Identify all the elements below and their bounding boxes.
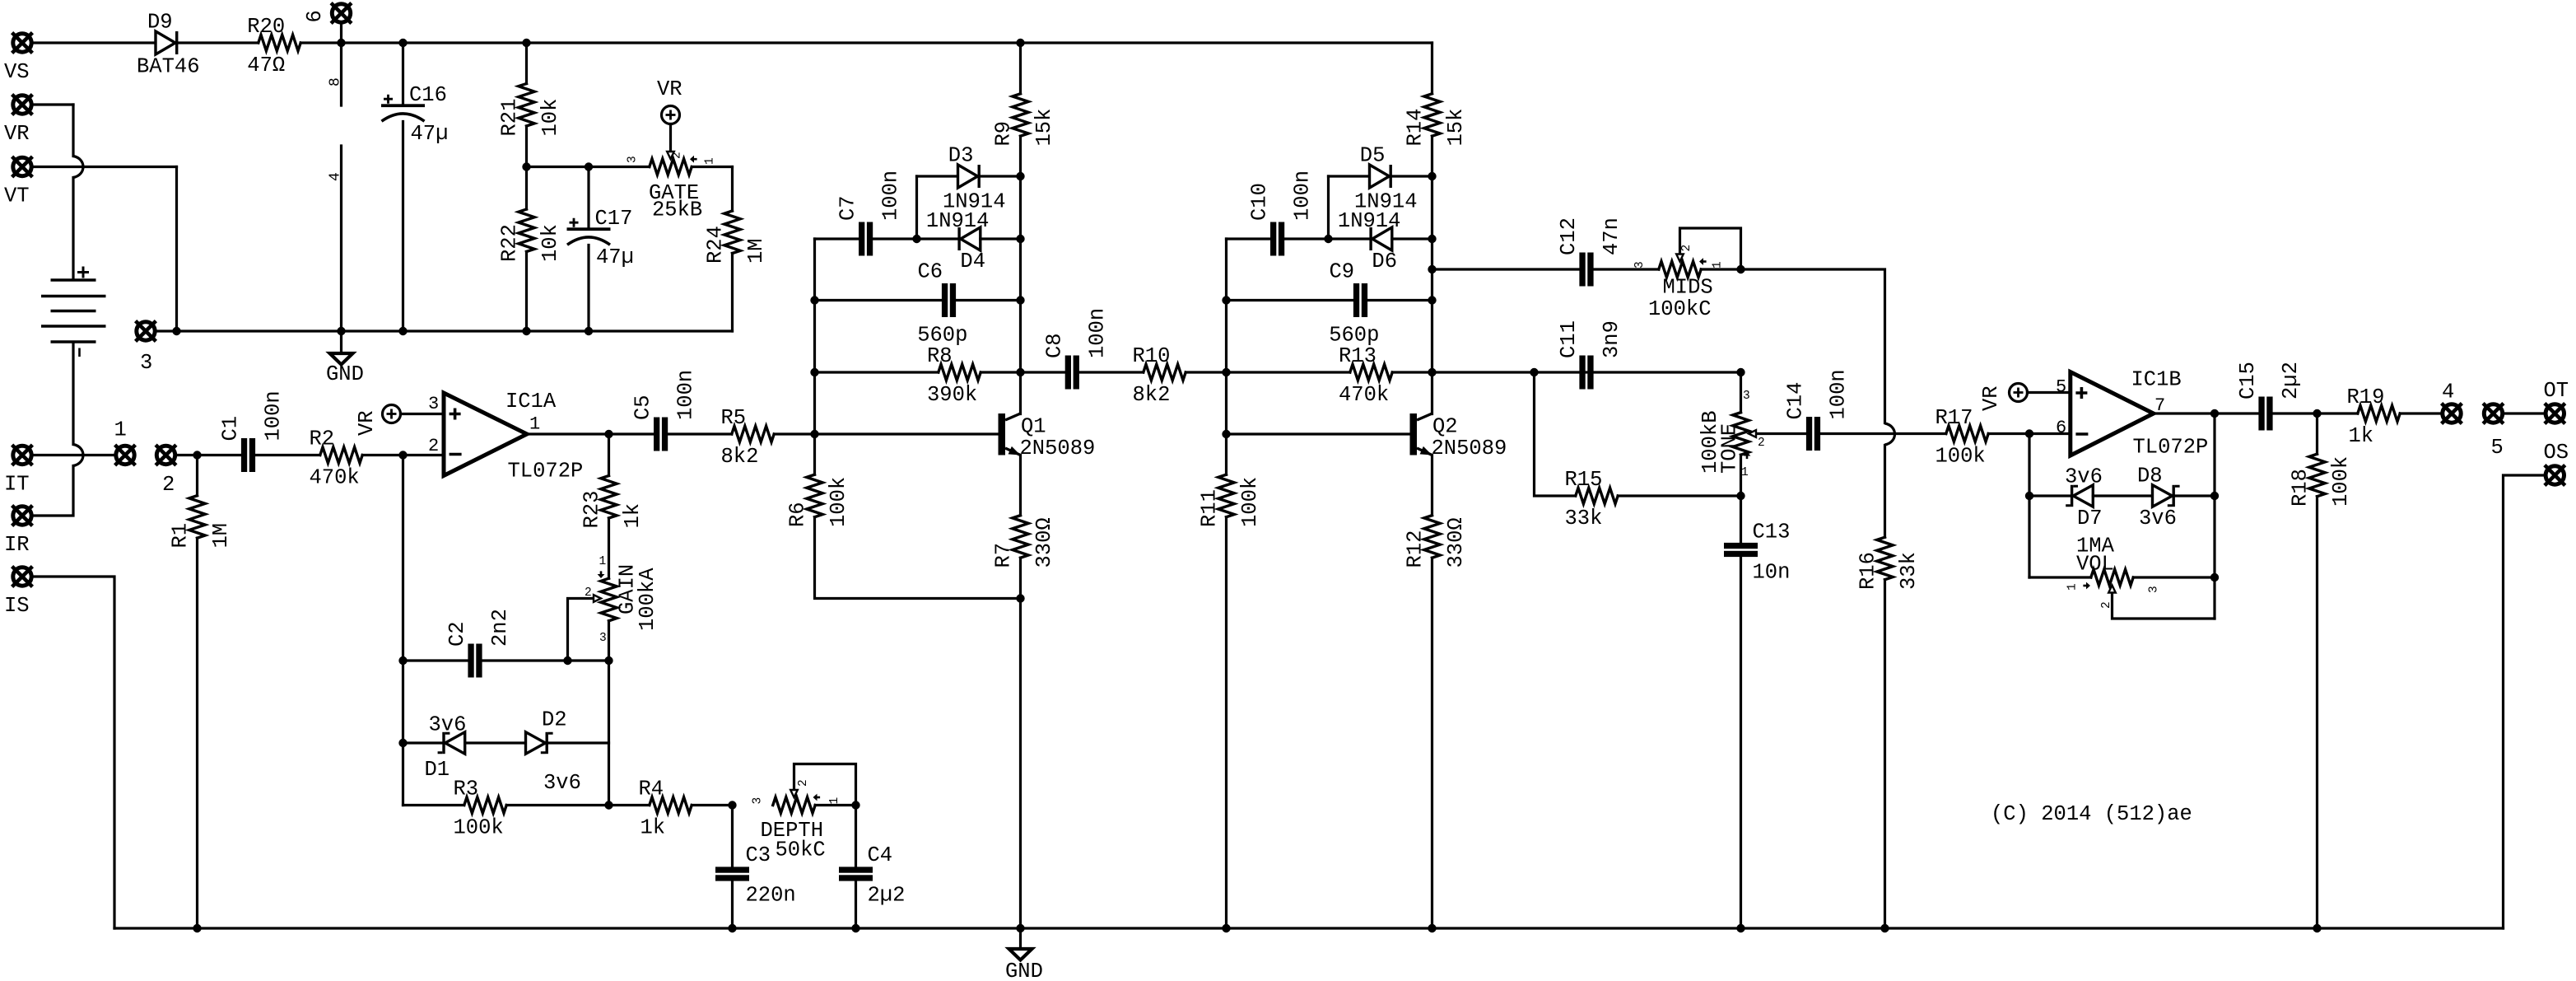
pad VS [12,33,33,54]
wire D5 to column [1392,175,1432,177]
DEPTH wiper arrow [790,790,798,797]
svg-text:IS: IS [4,594,30,618]
svg-text:2: 2 [428,436,439,456]
wire D3 to column [981,175,1021,177]
svg-text:100k: 100k [454,816,504,840]
resistor R23 [601,476,617,519]
wire D1 to D2 [465,741,526,744]
svg-text:R22: R22 [498,224,522,262]
wire C16 to gnd rail [402,122,404,332]
svg-text:R19: R19 [2347,385,2385,409]
VOL end arrow [2083,582,2090,590]
capacitor C16 [381,95,425,122]
wire D7 to D8 [2093,494,2152,497]
junction D3 row [1016,172,1024,180]
svg-text:R10: R10 [1133,344,1171,368]
resistor R11 [1218,474,1234,517]
capacitor C4 [839,867,873,881]
wire D4 to column [981,237,1021,240]
wire to C10 [1227,237,1271,240]
junction output feedback [2210,409,2219,418]
VR supply bubble at IC1B [2010,384,2028,402]
wire C2 to GAIN pin3 [482,659,609,661]
svg-text:47µ: 47µ [596,245,634,269]
pad IR [12,506,33,526]
junction C12 row [1428,265,1436,273]
svg-text:R11: R11 [1198,489,1222,527]
svg-text:VR: VR [657,77,682,101]
wire D2 to GAIN column [548,741,609,744]
wire to battery plus [72,178,74,279]
svg-text:R13: R13 [1339,344,1377,368]
wire TONE pin1 down [1740,455,1742,496]
capacitor C14 [1806,417,1820,451]
wire to C12 [1432,268,1580,270]
wire to C4 [855,806,857,867]
svg-text:IT: IT [4,473,30,497]
svg-text:IC1B: IC1B [2131,368,2182,392]
diode D6 [1369,227,1391,250]
wire GAIN wiper down [568,599,593,661]
wire R16 column [1884,446,1886,538]
svg-text:3: 3 [752,797,765,805]
svg-text:R12: R12 [1404,530,1428,568]
junction D7 left [2025,492,2033,500]
svg-text:470k: 470k [1339,383,1389,407]
svg-text:10n: 10n [1753,561,1791,585]
svg-text:3: 3 [627,156,640,163]
wire R23 to GAIN pin1 [608,518,610,578]
wire to R8 [815,371,939,373]
wire C9 to column [1367,299,1432,301]
svg-text:5: 5 [2056,377,2066,398]
svg-text:R18: R18 [2289,469,2313,507]
VOL wiper arrow [2108,586,2116,593]
svg-text:6: 6 [303,10,327,22]
junction C3 top [728,801,736,809]
wire MIDS pin1 [1701,268,1740,270]
GATE end arrow [690,156,697,163]
capacitor C2 [468,644,482,678]
wire VOL pin1 [2029,576,2091,578]
zener diode D7 [2066,485,2093,507]
resistor R16 [1877,537,1893,580]
wire R5 to base bus [774,432,814,435]
resistor R7 [1013,516,1028,558]
svg-text:8k2: 8k2 [721,445,759,469]
svg-text:100kA: 100kA [636,568,659,631]
wire pad 5 to OT [2504,412,2544,414]
zener diode D1 [438,732,465,754]
wire to D3 [917,175,958,177]
wire hop over VT [73,156,83,178]
resistor R22 [519,209,534,252]
potentiometer DEPTH body [773,797,815,813]
svg-text:1k: 1k [2349,424,2374,448]
svg-text:4: 4 [328,172,344,181]
svg-text:C11: C11 [1557,320,1581,358]
svg-text:1: 1 [1741,466,1749,479]
wire pad6 stub [340,25,342,44]
wire C1 to R2 [255,454,320,456]
wire Q2 emitter down [1431,455,1433,516]
svg-text:R21: R21 [498,99,522,137]
junction R21 top [522,39,530,47]
junction pad6/top rail [337,39,345,47]
svg-text:2N5089: 2N5089 [1432,437,1507,460]
svg-text:D2: D2 [542,708,567,732]
TONE end arrow [1744,452,1751,460]
wire to D1 [403,741,443,744]
svg-text:MIDS: MIDS [1663,276,1713,300]
wire to R21 [525,43,528,84]
wire R19 to pad 4 [2400,412,2440,414]
potentiometer GATE body [650,159,692,175]
svg-text:6: 6 [2056,418,2066,438]
svg-text:2µ2: 2µ2 [2279,362,2303,399]
wire C3 to rail [731,881,734,928]
svg-text:3v6: 3v6 [2065,465,2103,489]
wire R9 to D3 row [1019,136,1022,176]
resistor R12 [1424,516,1440,558]
wire to C9 [1227,299,1353,301]
potentiometer GAIN body [601,578,617,621]
wire Q2 base bus [1225,239,1227,474]
wire C15 to R19 [2273,412,2358,414]
junction VR node [522,162,530,171]
wire to C6 [815,299,942,301]
junction GAIN pin3 [604,656,613,665]
wire C8 to R10 [1079,371,1144,373]
svg-text:1: 1 [828,797,841,805]
wire R21 to VR node [525,126,528,167]
svg-text:2: 2 [1758,437,1765,450]
svg-text:D9: D9 [147,11,173,35]
svg-text:D6: D6 [1372,250,1397,273]
junction R1 bottom rail [193,924,201,932]
svg-text:C13: C13 [1753,521,1791,544]
wire R24 to gnd rail [731,254,734,332]
svg-text:3v6: 3v6 [429,713,467,737]
wire IC1A output [527,432,609,435]
junction C4 top [851,801,859,809]
wire C11 row [1432,371,1741,373]
wire DEPTH wiper loop [794,764,856,806]
wire base row to Q2 [1227,432,1410,435]
svg-text:D3: D3 [948,144,974,168]
zener diode D8 [2153,485,2180,507]
svg-text:8: 8 [328,77,344,86]
wire R10 to stage B [1186,371,1226,373]
pad 3 [136,321,156,342]
junction R12 rail [1428,924,1436,932]
svg-text:VS: VS [4,60,30,84]
svg-text:BAT46: BAT46 [137,55,200,79]
wire C5 to R5 [668,432,732,435]
svg-text:R5: R5 [721,406,747,430]
wire top rail to R14 [1431,43,1433,94]
svg-text:8k2: 8k2 [1133,383,1171,407]
svg-text:15k: 15k [1032,109,1056,147]
junction C4 rail [851,924,859,932]
capacitor C15 [2258,397,2272,431]
svg-text:C4: C4 [868,843,893,867]
wire to IR pad [34,466,74,516]
wire VR bubble to GATE wiper [669,124,672,151]
svg-text:1: 1 [529,414,540,435]
capacitor C8 [1065,356,1079,390]
svg-text:220n: 220n [746,884,796,908]
resistor R14 [1424,94,1440,136]
wire R1 to ground rail [196,538,198,928]
svg-text:D1: D1 [425,758,450,782]
wire top rail [300,41,1432,44]
svg-text:100n: 100n [879,171,903,221]
wire GAIN pin3 down [608,621,610,806]
diode D9 [156,31,178,54]
pad 4 [2442,404,2462,424]
pad 5 [2483,404,2504,424]
wire IS pad down [34,577,115,928]
wire R2 to IC1A inverting input [362,454,444,456]
svg-text:C16: C16 [409,83,447,107]
resistor R10 [1144,364,1186,380]
junction R18 top [2313,409,2321,418]
svg-text:100k: 100k [827,477,850,527]
svg-text:IR: IR [4,533,30,557]
wire to R3 [403,804,464,806]
pad IS [12,567,33,587]
wire R11 to rail [1225,517,1227,928]
svg-text:100n: 100n [1085,308,1109,358]
wire GATE pin1 to R24 [692,166,732,168]
svg-text:R1: R1 [169,523,193,549]
wire to R23 [608,434,610,476]
resistor R4 [650,797,692,813]
svg-text:R16: R16 [1856,552,1880,590]
svg-text:2: 2 [162,473,175,497]
wire to D5 [1329,175,1370,177]
junction R15 column top [1530,368,1538,376]
pad 1 [115,445,136,465]
wire battery minus down [72,343,74,445]
svg-text:15k: 15k [1444,109,1468,147]
resistor R5 [732,426,774,441]
pad 6 [331,3,352,24]
resistor R1 [189,496,205,539]
diode D5 [1370,165,1392,188]
junction MIDS output [1736,265,1745,273]
battery B1 [41,280,106,342]
svg-text:D7: D7 [2077,507,2103,530]
svg-text:R3: R3 [454,778,479,801]
wire IC1B output [2154,412,2259,414]
GAIN wiper arrow [594,595,601,602]
wire IC1 pin 4 stub [340,146,342,331]
svg-text:3n9: 3n9 [1600,320,1623,358]
resistor R20 [259,35,300,50]
diode D4 [957,227,980,250]
junction IC1B feedback [2025,429,2033,437]
wire C10 to D6 [1284,237,1369,240]
capacitor C3 [715,867,749,881]
wire R18 to rail [2316,497,2318,928]
svg-text:390k: 390k [927,383,977,407]
svg-text:C17: C17 [595,207,633,231]
potentiometer MIDS body [1659,261,1701,277]
svg-text:1: 1 [704,157,717,165]
junction GAIN wiper tie [563,656,571,665]
svg-text:C6: C6 [918,260,943,284]
wire R6 to R7 bottom [815,517,1021,599]
svg-text:R15: R15 [1565,468,1603,492]
wire Q1 collector column [1019,176,1022,414]
junction R9 top [1016,39,1024,47]
wire R8 to column [981,371,1020,373]
resistor R21 [519,84,534,127]
wire feedback column [402,455,404,806]
svg-text:R6: R6 [786,502,810,527]
svg-text:C1: C1 [219,416,243,441]
GATE wiper arrow [667,152,674,159]
junction C16 top [398,39,407,47]
wire to C16 [402,43,404,104]
resistor R17 [1946,426,1988,441]
svg-text:R7: R7 [992,543,1016,568]
svg-text:IC1A: IC1A [505,390,557,413]
svg-text:VR: VR [355,410,379,436]
wire to R1 [196,455,198,496]
pad VR [12,95,33,115]
wire to R22 [525,167,528,210]
wire R16 to rail [1884,580,1886,928]
wire to C7 [815,237,859,240]
wire to R13 [1227,371,1350,373]
svg-text:25kB: 25kB [652,199,702,222]
GAIN end arrow [598,571,605,578]
svg-text:C10: C10 [1248,183,1272,221]
wire DEPTH pin1 [815,804,855,806]
wire VR to GATE pin3 [589,166,650,168]
junction C2 row left [398,656,407,665]
junction C16 bottom [398,327,407,335]
junction C6 left [810,296,818,304]
op-amp IC1A [444,393,527,476]
svg-text:GND: GND [1005,960,1043,981]
junction R1 top [193,451,201,459]
wire to C5 [609,432,654,435]
wire to R15 [1535,372,1576,496]
capacitor C17 [567,218,611,245]
svg-text:R4: R4 [639,778,664,801]
junction C9 row [1428,296,1436,304]
wire to C13 [1740,496,1742,543]
junction R7 bottom [1016,594,1024,602]
op-amp IC1B [2071,372,2154,456]
diode D3 [958,165,981,188]
wire VT pad to right [34,166,177,168]
svg-text:(C) 2014 (512)ae: (C) 2014 (512)ae [1991,802,2192,826]
svg-text:3: 3 [2148,586,2161,593]
svg-text:470k: 470k [310,466,360,490]
svg-text:4: 4 [2442,381,2454,404]
capacitor C10 [1270,222,1284,256]
MIDS wiper arrow [1676,255,1684,262]
svg-text:3v6: 3v6 [543,771,581,795]
svg-text:OT: OT [2544,379,2569,403]
junction R13 row [1428,368,1436,376]
svg-text:5: 5 [2491,436,2504,460]
svg-text:Q2: Q2 [1432,415,1458,439]
wire gnd rail top section [157,329,733,332]
svg-text:C14: C14 [1784,382,1808,420]
wire VOL pin3 to column [2133,576,2215,578]
junction R13 left [1222,368,1230,376]
wire D5 to D6 vertical [1327,176,1330,239]
svg-text:100k: 100k [1935,445,1986,469]
svg-text:100n: 100n [1827,369,1851,419]
junction C6 row [1016,296,1024,304]
junction R11 rail [1222,924,1230,932]
svg-text:100n: 100n [262,390,286,441]
junction TONE pin3 [1736,368,1745,376]
svg-text:2: 2 [797,779,810,787]
svg-text:100n: 100n [1291,171,1315,221]
wire VR to pin 5 [2028,391,2071,394]
wire IC1 pin 8 stub [340,43,342,105]
wire C6 to column [956,299,1020,301]
pad 2 [156,445,176,465]
svg-text:47µ: 47µ [411,122,449,146]
resistor R6 [807,474,822,517]
svg-text:33k: 33k [1565,507,1603,530]
svg-text:47Ω: 47Ω [247,54,285,77]
wire to gnd symbol [340,331,342,353]
svg-text:3: 3 [1743,390,1750,403]
junction gnd symbol [337,327,345,335]
wire VR pad [34,103,74,105]
wire D6 to column [1392,237,1432,240]
junction VT/gnd rail [172,327,180,335]
wire MIDS to R16 column [1741,269,1885,423]
svg-text:D5: D5 [1360,144,1386,168]
transistor Q2 [1410,413,1432,455]
junction R22 bottom [522,327,530,335]
wire VT down to gnd rail [175,167,178,332]
wire R15 to TONE pin1 [1618,494,1740,497]
junction feedback node [398,451,407,459]
svg-text:47n: 47n [1600,217,1623,255]
junction TONE pin1/C13 [1736,492,1745,500]
wire Q2 collector column [1431,176,1433,414]
junction C13 rail [1736,924,1745,932]
svg-text:1k: 1k [621,503,645,529]
wire C13 to rail [1740,557,1742,928]
junction D6 row [1428,235,1436,243]
junction C17 top [585,162,593,171]
resistor R15 [1576,488,1618,503]
svg-text:D4: D4 [960,250,985,273]
wire D3 to D4 vertical [915,176,918,239]
junction D1 row left [398,739,407,747]
wire OS down to rail [2504,475,2544,928]
svg-text:100kB: 100kB [1698,410,1722,474]
svg-text:1: 1 [1712,261,1725,269]
wire R12 to rail [1431,558,1433,928]
svg-text:1: 1 [114,418,127,442]
svg-text:C3: C3 [746,843,771,867]
wire C14 to R17 [1820,432,1946,435]
